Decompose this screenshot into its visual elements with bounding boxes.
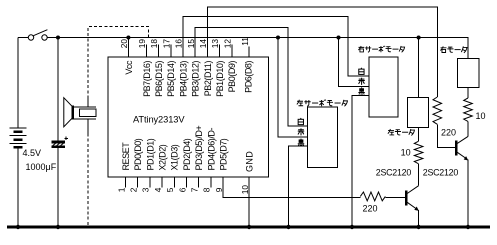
svg-text:PB4(D13): PB4(D13): [178, 61, 188, 97]
transistor Q1 2SC2120 left: [406, 186, 419, 227]
svg-text:X1(D3): X1(D3): [170, 144, 180, 170]
node junction rail-right-servo-red: [337, 36, 341, 40]
pin 5 X1(D3) stub: [165, 144, 180, 192]
svg-text:4: 4: [153, 187, 163, 192]
label 1000uF: [26, 162, 57, 172]
wire left resistor to Q1 collector: [418, 164, 420, 186]
svg-text:PB3(D12): PB3(D12): [191, 61, 201, 97]
label 2SC2120 left: [376, 168, 412, 178]
pin 2 PD0(D0) stub: [129, 138, 144, 192]
svg-text:PB6(D15): PB6(D15): [154, 61, 164, 97]
wire pin15 PB3 net to left servo white: [195, 28, 307, 126]
svg-text:ATtiny2313V: ATtiny2313V: [133, 115, 185, 125]
node junction rail-pin20: [126, 36, 130, 40]
label 10 right: [476, 111, 486, 121]
svg-text:PD6(D8): PD6(D8): [244, 61, 254, 93]
pin 3 PD1(D1) stub: [141, 138, 156, 192]
pin 18 PB6(D15) stub: [149, 39, 164, 97]
wire right 220 to Q2 base: [437, 124, 455, 147]
wire pin20 Vcc riser: [127, 38, 129, 58]
svg-text:RESET: RESET: [121, 142, 131, 171]
pin 11 PD6(D8) stub: [240, 37, 254, 93]
wire right servo black to ground bus: [352, 96, 369, 227]
pin 9 PD5(D7) stub: [214, 138, 229, 192]
node junction bus-right-servo-black: [350, 225, 354, 229]
node junction bus-Q2-emitter: [466, 225, 470, 229]
svg-text:10: 10: [476, 111, 486, 121]
resistor R3 10 ohm left: [414, 141, 423, 164]
node junction rail-cap: [56, 36, 60, 40]
label left motor: [388, 129, 415, 135]
svg-text:PD1(D1): PD1(D1): [145, 138, 155, 170]
wire right resistor to Q2 collector: [467, 122, 469, 137]
svg-text:19: 19: [137, 39, 147, 49]
wire pin10 GND to bus: [248, 177, 250, 227]
svg-text:2SC2120: 2SC2120: [376, 168, 412, 178]
pin 6 PD2(D4) stub: [177, 138, 192, 192]
label ATtiny2313V: [133, 115, 185, 125]
pin 17 PB5(D14) stub: [161, 39, 176, 97]
label left servo wire colors white red black: [298, 118, 304, 146]
wire top Vcc rail: [18, 38, 468, 59]
battery BT1 4.5V: [10, 128, 27, 147]
pin 13 PB1(D10) stub: [210, 39, 225, 97]
node junction rail-left-servo-red: [276, 36, 280, 40]
label 2SC2120 right: [423, 167, 459, 177]
label right servo motor: [358, 46, 404, 52]
resistor R4 10 ohm right: [464, 98, 473, 121]
wire capacitor column: [57, 38, 59, 228]
svg-text:220: 220: [441, 127, 456, 137]
svg-text:13: 13: [210, 39, 220, 49]
wire pin9 PD5 to base resistor: [223, 177, 360, 198]
wire left motor to resistor: [418, 127, 420, 141]
svg-text:9: 9: [214, 187, 224, 192]
connector left servo box: [308, 107, 338, 167]
svg-text:12: 12: [222, 39, 232, 49]
wire right servo red to rail: [339, 38, 370, 87]
svg-text:5: 5: [165, 187, 175, 192]
svg-text:GND: GND: [245, 151, 255, 172]
wire right motor to resistor: [467, 88, 469, 98]
svg-text:1000μF: 1000μF: [26, 162, 57, 172]
label 220 left: [363, 203, 378, 213]
svg-text:7: 7: [190, 187, 200, 192]
node junction bus-pin10: [247, 225, 251, 229]
svg-text:PB5(D14): PB5(D14): [166, 61, 176, 97]
transistor Q2 2SC2120 right: [456, 136, 468, 227]
svg-text:PD4(D6)/D-: PD4(D6)/D-: [206, 128, 216, 171]
label 10 left: [401, 148, 411, 158]
svg-text:15: 15: [186, 39, 196, 49]
svg-text:18: 18: [149, 39, 159, 49]
svg-text:2: 2: [129, 187, 139, 192]
pin 14 PB2(D11) stub: [198, 39, 213, 97]
node junction bus-capacitor: [56, 225, 60, 229]
svg-text:PB0(D9): PB0(D9): [227, 61, 237, 93]
label right servo wire colors white red black: [358, 68, 364, 95]
svg-text:8: 8: [202, 187, 212, 192]
svg-text:17: 17: [161, 39, 171, 49]
wire pin14 PB2 net to right base resistor: [207, 7, 437, 97]
pin 15 PB3(D12) stub: [186, 39, 201, 97]
wire piezo leads solid: [87, 99, 89, 134]
node junction rail-left-motor: [417, 36, 421, 40]
svg-text:3: 3: [141, 187, 151, 192]
svg-text:PB1(D10): PB1(D10): [215, 61, 225, 97]
pin 8 PD4(D6)/D- stub: [202, 128, 217, 193]
pin 1 RESET stub: [116, 142, 131, 193]
switch S1: [28, 30, 47, 41]
svg-text:PB7(D16): PB7(D16): [142, 61, 152, 97]
svg-text:10: 10: [240, 185, 250, 195]
svg-text:PD5(D7): PD5(D7): [219, 138, 229, 170]
svg-text:PD2(D4): PD2(D4): [182, 138, 192, 170]
ground bus: [7, 225, 490, 228]
wire left 220 to Q1 base: [385, 197, 405, 199]
connector right servo box: [369, 57, 398, 117]
capacitor C1 1000uF electrolytic: [52, 136, 68, 147]
svg-text:Vcc: Vcc: [124, 60, 134, 75]
svg-text:11: 11: [240, 37, 250, 46]
pin 16 PB4(D13) stub: [174, 39, 189, 97]
label 4.5V: [23, 148, 42, 158]
svg-text:PB2(D11): PB2(D11): [203, 61, 213, 97]
pin 20 Vcc stub: [119, 39, 134, 75]
svg-text:6: 6: [177, 187, 187, 192]
pin 4 X2(D2) stub: [153, 144, 168, 192]
node junction bus-left-servo-black: [286, 225, 290, 229]
node junction bus-Q1-emitter: [416, 225, 420, 229]
pin 7 PD3(D5)/D+ stub: [190, 126, 205, 193]
op IC U1 ATtiny2313V box: [108, 57, 268, 177]
svg-text:PD3(D5)/D+: PD3(D5)/D+: [194, 126, 204, 171]
wire left servo black to ground bus: [289, 146, 308, 227]
pin 10 GND stub: [240, 151, 255, 194]
svg-text:1: 1: [116, 187, 126, 192]
motor M2 right motor box from rail corner: [458, 58, 479, 87]
motor M1 left motor box: [408, 97, 429, 127]
svg-text:16: 16: [174, 39, 184, 49]
pin 19 PB7(D16) stub: [137, 39, 152, 97]
label right motor: [440, 46, 467, 52]
wire left motor from rail: [418, 38, 420, 98]
svg-text:14: 14: [198, 39, 208, 49]
svg-text:10: 10: [401, 148, 411, 158]
svg-text:4.5V: 4.5V: [23, 148, 42, 158]
node junction bus-battery: [16, 225, 20, 229]
wire pin16 PB4 net to right servo white: [183, 16, 369, 76]
svg-text:2SC2120: 2SC2120: [423, 167, 459, 177]
svg-text:220: 220: [363, 203, 378, 213]
label 220 right: [441, 127, 456, 137]
wire left supply rail vertical: [17, 38, 19, 228]
wire left servo red to rail: [278, 38, 308, 137]
label left servo motor: [297, 100, 348, 107]
svg-text:X2(D2): X2(D2): [158, 144, 168, 170]
resistor R2 220 ohm right vertical: [433, 97, 442, 124]
wire dashed optional speaker connection: [88, 27, 148, 228]
svg-text:20: 20: [119, 39, 129, 49]
speaker SP1 piezo: [64, 98, 96, 127]
resistor R1 220 ohm left horizontal: [360, 192, 385, 201]
svg-text:PD0(D0): PD0(D0): [133, 138, 143, 170]
pin 12 PB0(D9) stub: [222, 39, 237, 93]
